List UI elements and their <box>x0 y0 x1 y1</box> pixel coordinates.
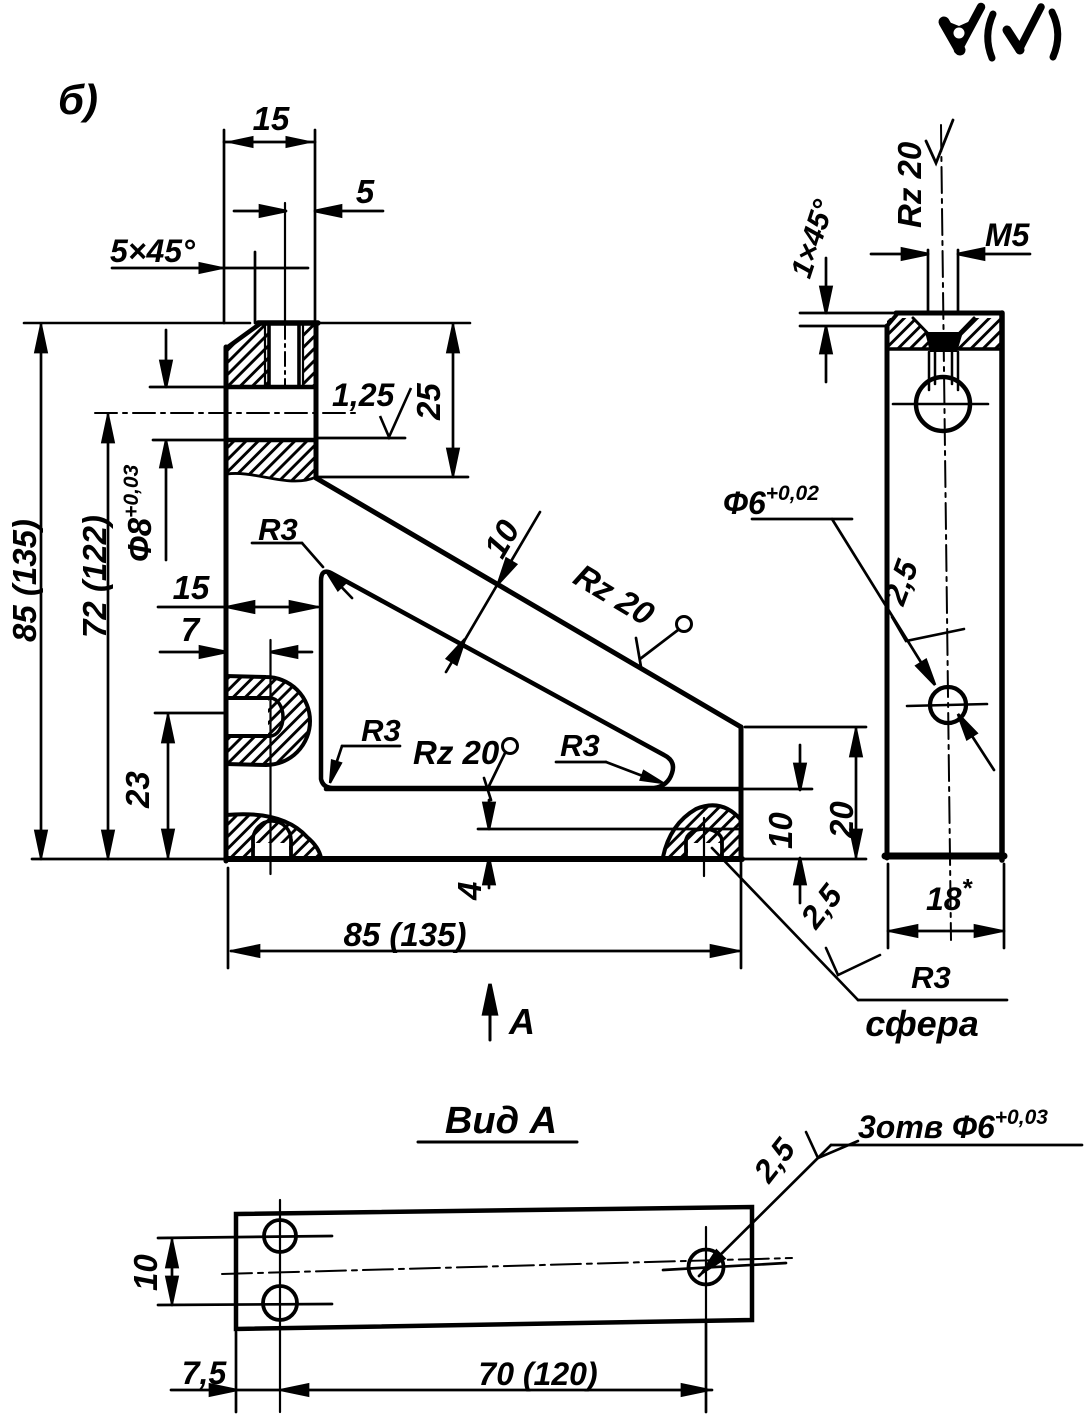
dim 10 cross gusset line <box>446 512 540 672</box>
svg-text:А: А <box>508 1001 535 1042</box>
main view: left face of vertical leg <box>224 347 229 861</box>
dim 4 extension and arrows <box>478 800 742 888</box>
main view: bottom-right boss dome outline <box>663 805 741 857</box>
surface finish symbol top right <box>944 7 1058 58</box>
hatch: flange section right band <box>303 324 316 387</box>
dim 23 extension and line <box>155 713 226 858</box>
svg-text:25: 25 <box>410 383 447 421</box>
dim text 10 bottom view <box>127 1254 164 1291</box>
svg-text:R3: R3 <box>361 713 401 748</box>
label R3 top <box>258 512 298 547</box>
roughness tick 2,5 bottom view <box>806 1132 858 1158</box>
dim text 23 <box>119 771 156 809</box>
roughness tick 2,5 side view <box>892 617 964 641</box>
dim text 20 <box>823 801 860 839</box>
side view: right face <box>999 313 1005 860</box>
hatch: bottom-right boss dome <box>663 805 741 857</box>
dim text 15 middle <box>173 569 210 606</box>
dim 85(135) left vertical <box>36 324 47 859</box>
svg-text:85 (135): 85 (135) <box>6 519 43 642</box>
svg-text:7,5: 7,5 <box>182 1355 228 1391</box>
svg-text:4: 4 <box>451 882 488 901</box>
dim 15 (middle) line <box>158 602 318 613</box>
dim text phi6+0,02 <box>723 482 819 521</box>
side view: 1x45 chamfer edge <box>887 313 898 326</box>
dim M5 extensions and line <box>871 249 1030 313</box>
svg-text:85 (135): 85 (135) <box>344 916 467 953</box>
dim text 85 (135) bottom <box>344 916 467 953</box>
dim text 85(135) left <box>6 519 43 642</box>
hatch: countersink left triangle (side view) <box>887 318 940 348</box>
view arrow A <box>484 984 497 1040</box>
hatch: middle boss stadium <box>224 676 310 765</box>
dim text 4 <box>451 882 488 901</box>
side view: phi8 hole circle <box>893 377 988 431</box>
dim text 15 top <box>253 100 290 137</box>
dim text 5 <box>356 173 375 210</box>
main view: middle boss outline <box>226 676 310 765</box>
leader 3otv phi6 <box>698 1145 1082 1277</box>
label Rz20 upper <box>568 557 662 633</box>
svg-text:Вид А: Вид А <box>445 1100 557 1142</box>
svg-text:23: 23 <box>119 771 156 809</box>
side view: bottom face <box>885 853 1004 860</box>
dim text 10 right <box>762 812 799 849</box>
leader Rz20 upper with circle <box>636 617 692 668</box>
hatch: bottom-left boss dome <box>226 814 321 858</box>
dim text 7 <box>181 611 201 648</box>
svg-text:Rz 20: Rz 20 <box>413 734 500 771</box>
dim text 2,5 side view <box>876 554 926 610</box>
main view: bottom face of base <box>32 856 866 862</box>
side view: M5 thread lines <box>929 352 958 390</box>
dim text 25 <box>410 383 447 421</box>
side view: countersink V lines <box>913 318 974 352</box>
label R3 sphere <box>911 960 951 995</box>
leader phi6+0,02 with underline <box>752 519 994 770</box>
dim 18 extensions and line <box>888 864 1004 948</box>
hatch: countersink right triangle (side view) <box>948 318 1002 348</box>
side view: phi6 hole circle <box>907 687 987 723</box>
dim text 70 (120) <box>478 1356 597 1392</box>
bottom view: hole circle right <box>663 1227 786 1322</box>
label Rz20 side top <box>891 141 928 228</box>
main view: bottom-left boss dome outline <box>226 814 321 858</box>
label Rz20 lower <box>413 734 500 771</box>
main view: 5x45 chamfer edge top-left <box>228 323 261 347</box>
side view: left face <box>885 326 890 858</box>
main view: middle/bottom hole center line <box>269 640 271 874</box>
main view: bottom-left phi6 hole <box>253 821 291 858</box>
main view: M5 thread lines in flange <box>265 325 303 387</box>
svg-text:Rz 20: Rz 20 <box>891 141 928 228</box>
dim 7,5 and 70(120) extensions <box>236 1322 706 1412</box>
bottom view: hole circle top-left <box>158 1220 332 1252</box>
main view: right end face of base <box>739 727 744 968</box>
title underline Vid A <box>418 1141 577 1144</box>
dim 15 (top) line <box>224 137 315 148</box>
side view: countersink bottom line <box>887 347 1002 351</box>
main view: phi8 hole bottom wall <box>153 438 405 440</box>
dim 25 extension and line <box>318 324 468 477</box>
main view: pocket contour with R3 corners <box>321 572 673 788</box>
dim 10 (right) arrows <box>795 745 806 903</box>
dim 1x45 arrows <box>821 258 832 382</box>
main view: middle boss hole spherical end <box>270 698 283 736</box>
main view: top face of vertical leg <box>24 320 470 325</box>
svg-text:сфера: сфера <box>865 1003 978 1044</box>
bottom view: left holes vertical centerline <box>279 1200 281 1412</box>
label b) <box>58 76 98 123</box>
dim 5x45 leader line <box>112 263 308 274</box>
svg-text:5: 5 <box>356 173 375 210</box>
label R3 middle <box>560 728 600 763</box>
svg-text:М5: М5 <box>985 217 1031 253</box>
bottom view: hole circle bottom-left <box>158 1286 332 1320</box>
leader R3 left bottom <box>326 746 400 784</box>
bottom view: plate outline <box>236 1207 752 1329</box>
title Vid A <box>445 1100 557 1142</box>
leader R3 middle <box>556 762 665 787</box>
dim phi8 arrows <box>161 330 172 560</box>
leader Rz20 lower with circle <box>484 739 518 801</box>
dim 20 extension and line <box>745 727 866 858</box>
leader sphere note bottom right <box>712 848 1007 1000</box>
dim text 1x45 side view <box>785 195 841 282</box>
svg-text:R3: R3 <box>258 512 298 547</box>
dim text M5 <box>985 217 1031 253</box>
svg-text:R3: R3 <box>911 960 951 995</box>
dim text 10 cross <box>476 513 527 564</box>
svg-text:7: 7 <box>181 611 201 648</box>
dim 5 line <box>234 206 383 217</box>
main view: breakout boundary under flange <box>227 473 316 481</box>
svg-text:10: 10 <box>127 1254 164 1291</box>
label A view arrow <box>508 1001 535 1042</box>
main view: phi8 hole axis centerline <box>95 412 360 414</box>
svg-text:15: 15 <box>173 569 210 606</box>
dim text 72(122) <box>76 515 113 638</box>
svg-text:70 (120): 70 (120) <box>478 1356 597 1392</box>
svg-text:72 (122): 72 (122) <box>76 515 113 638</box>
main view: middle boss phi6 hole walls <box>226 698 270 736</box>
dim 7 line <box>160 647 312 658</box>
dim text 1,25 with tick <box>332 377 411 437</box>
main view: M5 hole axis vertical <box>284 203 286 386</box>
svg-text:R3: R3 <box>560 728 600 763</box>
dim text 18* <box>926 873 974 917</box>
dim 10 bottom view <box>167 1239 178 1305</box>
svg-text:15: 15 <box>253 100 290 137</box>
svg-text:20: 20 <box>823 801 860 839</box>
main view: phi8 hole top wall <box>150 385 316 390</box>
dim text 2,5 bottom view <box>746 1131 803 1190</box>
dim text 2,5 sphere leader <box>793 877 850 936</box>
dim text phi8+0,03 <box>120 464 158 562</box>
dim 5x45 chamfer extension <box>254 252 257 323</box>
side view: top face <box>800 313 1002 326</box>
svg-text:10: 10 <box>762 812 799 849</box>
hatch: flange lower band below hole <box>227 441 316 481</box>
main view: bottom-right phi6 hole <box>686 829 722 858</box>
svg-text:1,25: 1,25 <box>332 377 395 413</box>
hatch: flange section left band <box>227 324 269 387</box>
svg-text:5×45°: 5×45° <box>110 233 195 269</box>
dim 15 (top) extension lines <box>224 130 315 323</box>
label R3 left bottom <box>361 713 401 748</box>
svg-text:б): б) <box>58 76 98 123</box>
dim 7,5 / 70(120) line <box>171 1385 712 1396</box>
main view: right face of upper flange <box>314 323 319 478</box>
leader R3 top <box>252 543 352 598</box>
dim text 7,5 <box>182 1355 228 1391</box>
label 3otv phi6+0,03 <box>858 1106 1048 1145</box>
label sphere <box>865 1003 978 1044</box>
dim 72(122) vertical <box>103 414 114 859</box>
main view: bottom-right hole centerline <box>703 818 705 876</box>
dim text 5x45 <box>110 233 195 269</box>
side view: vertical centerline <box>941 125 951 940</box>
bottom view: horizontal centerline <box>222 1258 792 1274</box>
dim 85(135) bottom extensions and line <box>228 868 739 968</box>
roughness tick Rz20 top <box>926 120 953 163</box>
main view: top face of base web <box>326 787 812 792</box>
main view: outer diagonal gusset edge <box>316 478 741 727</box>
